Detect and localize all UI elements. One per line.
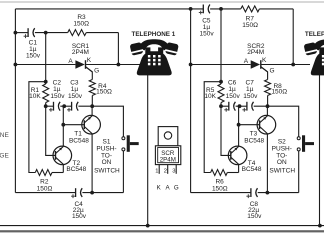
- label S2 text block: [269, 139, 295, 175]
- SCR package inner label box: [158, 148, 179, 163]
- svg-text:BC548: BC548: [69, 138, 89, 145]
- svg-text:2: 2: [164, 168, 167, 174]
- SCR package pin 2: [167, 165, 169, 174]
- node R1-branch junction: [44, 80, 48, 84]
- svg-text:SWITCH: SWITCH: [269, 168, 295, 175]
- wire T1 emitter to bottom: [91, 134, 93, 193]
- svg-text:1µ: 1µ: [228, 86, 236, 93]
- svg-text:BC548: BC548: [66, 166, 86, 173]
- label R6: [212, 179, 228, 193]
- svg-text:150v: 150v: [243, 93, 258, 100]
- frame bottom border bar: [0, 230, 324, 232]
- switch S1 push-to-on contacts: [122, 137, 125, 151]
- capacitor C8: [246, 188, 257, 198]
- wire left rail B vertical: [190, 9, 192, 193]
- svg-text:150v: 150v: [26, 52, 41, 59]
- label pin names K A G: [157, 184, 179, 191]
- switch S1 button: [127, 135, 139, 152]
- label C7: [243, 80, 258, 101]
- svg-text:1µ: 1µ: [246, 86, 254, 93]
- telephone icon telephone 1: [129, 39, 179, 75]
- wire between caps: [60, 105, 71, 107]
- node cathode junction: [117, 63, 121, 67]
- svg-text:GE: GE: [0, 153, 9, 160]
- svg-text:150v: 150v: [50, 93, 65, 100]
- capacitor C4: [71, 188, 82, 198]
- capacitor C5: [199, 5, 210, 15]
- resistor R7: [241, 6, 260, 12]
- wire T2 collector to T1 base: [62, 125, 64, 147]
- wire capacitor row: [46, 105, 54, 107]
- svg-text:1µ: 1µ: [53, 86, 61, 93]
- svg-text:150Ω: 150Ω: [96, 89, 112, 96]
- wire bottom row right part: [258, 192, 299, 194]
- wire C1 to R3: [35, 32, 68, 34]
- wire R8 to caps row: [267, 96, 269, 107]
- wire gate of SCR1: [86, 67, 93, 80]
- wire R4 to caps row: [91, 96, 93, 107]
- switch S2 button: [302, 135, 314, 152]
- wire branch to R6: [204, 82, 221, 173]
- capacitor C6: [224, 102, 235, 112]
- resistor R1: [43, 84, 49, 103]
- capacitor C1: [24, 28, 35, 38]
- resistor R6: [211, 170, 228, 176]
- label C8: [247, 201, 262, 220]
- SCR SCR2 2P4M symbol: [251, 60, 268, 72]
- capacitor C2: [49, 102, 60, 112]
- wire bottom row: [191, 192, 251, 194]
- switch S2 push-to-on contacts: [297, 137, 300, 151]
- transistor T4 BC548: [228, 146, 247, 165]
- resistor R3: [68, 30, 87, 36]
- label C5 value: [200, 18, 215, 38]
- wire C7 to switch corner: [254, 106, 299, 137]
- svg-text:R2: R2: [40, 179, 49, 186]
- svg-text:150v: 150v: [68, 93, 83, 100]
- label pin numbers 1 2 3: [155, 168, 175, 174]
- capacitor C3: [67, 102, 78, 112]
- label T4: [242, 160, 262, 173]
- node top rail at right rail: [189, 7, 193, 11]
- svg-text:G: G: [174, 184, 179, 191]
- svg-text:T3: T3: [250, 130, 258, 137]
- node telephone 2 line junction: [318, 224, 322, 228]
- label C6: [226, 80, 241, 101]
- label R5: [204, 87, 216, 100]
- SCR package pin 3: [175, 165, 177, 174]
- svg-text:3: 3: [172, 168, 175, 174]
- wire T4 collector to T3 base: [238, 125, 240, 147]
- node T3 emitter junction: [266, 191, 270, 195]
- wire R5 line upper: [220, 9, 222, 84]
- wire S2 to bottom rail: [298, 151, 300, 193]
- label C3: [68, 80, 83, 101]
- svg-text:K: K: [87, 57, 92, 64]
- node rail-anode junction: [189, 63, 193, 67]
- svg-text:150v: 150v: [200, 30, 215, 37]
- label R4: [96, 83, 112, 96]
- svg-text:A: A: [166, 184, 171, 191]
- wire gate of SCR2: [261, 67, 268, 80]
- node T3 base junction: [237, 123, 241, 127]
- wire anode row from rail to SCR1: [15, 64, 75, 66]
- node telephone 1 line junction: [146, 224, 150, 228]
- svg-text:2P4M: 2P4M: [160, 157, 176, 164]
- wire S1 to bottom rail: [122, 151, 124, 193]
- svg-text:2P4M: 2P4M: [72, 49, 89, 56]
- label R8: [271, 83, 287, 96]
- label C1 value: [26, 39, 41, 59]
- label R2: [37, 179, 53, 193]
- node R5-caps junction: [219, 104, 223, 108]
- transistor T1 BC548: [82, 115, 101, 134]
- resistor R5: [218, 84, 224, 103]
- wire caps-junction drop: [62, 106, 64, 125]
- svg-text:BC548: BC548: [244, 138, 264, 145]
- wire R5 to T4 base: [221, 103, 231, 156]
- svg-text:150Ω: 150Ω: [242, 22, 258, 29]
- svg-text:10K: 10K: [29, 93, 41, 100]
- wire caps-junction drop: [238, 106, 240, 125]
- wire T3 base: [239, 124, 260, 126]
- capacitor C7: [242, 102, 253, 112]
- node C1-R3 junction: [44, 31, 48, 35]
- wire bottom row right part: [82, 192, 123, 194]
- wire R1 line upper: [45, 33, 47, 84]
- wire telephone line lower rail: [0, 225, 324, 227]
- wire left rail A vertical: [14, 9, 16, 193]
- label T1: [69, 130, 89, 144]
- wire T1 collector: [91, 106, 93, 116]
- node R8-collector junction: [266, 104, 270, 108]
- wire R1 to T2 base: [46, 103, 56, 156]
- label C2: [50, 80, 65, 101]
- transistor T2 BC548: [53, 146, 72, 165]
- svg-text:A: A: [68, 58, 73, 65]
- wire between caps: [236, 105, 247, 107]
- node R1-caps junction: [44, 104, 48, 108]
- node caps midpoint junction: [62, 104, 66, 108]
- wire cathode-node vertical drop: [117, 33, 119, 65]
- svg-text:ON: ON: [102, 159, 112, 166]
- wire T1 base: [63, 124, 84, 126]
- label T2: [66, 160, 86, 173]
- label S1 text block: [94, 139, 120, 175]
- transistor T3 BC548: [257, 115, 276, 134]
- svg-text:150v: 150v: [247, 213, 262, 220]
- wire top rail horizontal: [15, 8, 203, 10]
- node R5-branch junction: [219, 80, 223, 84]
- svg-text:R6: R6: [215, 179, 224, 186]
- wire C5 to R7: [210, 8, 241, 10]
- node caps midpoint junction: [238, 104, 242, 108]
- resistor R4: [89, 80, 95, 96]
- wire R3 to cathode-node corner: [86, 32, 118, 34]
- node C5-R7 junction: [219, 7, 223, 11]
- wire capacitor row: [221, 105, 229, 107]
- node T1 emitter junction: [90, 191, 94, 195]
- svg-text:150Ω: 150Ω: [212, 186, 228, 193]
- wire T3 emitter to bottom: [266, 134, 268, 193]
- wire cathode to phone: [86, 64, 141, 66]
- svg-text:150v: 150v: [226, 93, 241, 100]
- label R7: [242, 16, 258, 30]
- node T1 base junction: [61, 123, 65, 127]
- label R3: [73, 14, 89, 27]
- resistor R2: [35, 170, 52, 176]
- wire branch to R2: [29, 82, 46, 173]
- svg-text:A: A: [244, 58, 249, 65]
- svg-text:K: K: [262, 57, 267, 64]
- wire C3 to switch corner: [78, 106, 123, 137]
- label SCR2: [247, 43, 265, 56]
- svg-text:K: K: [157, 184, 162, 191]
- svg-text:1µ: 1µ: [71, 86, 79, 93]
- label SCR package type: [160, 150, 176, 164]
- wire bottom row: [15, 192, 75, 194]
- wire R6 to T4 emitter: [227, 172, 238, 174]
- svg-text:G: G: [269, 68, 274, 75]
- wire telephone 2 to line rail: [319, 73, 321, 226]
- node rail-anode junction: [14, 63, 18, 67]
- telephone icon telephone 2: [303, 39, 324, 75]
- label R1: [29, 87, 41, 100]
- svg-text:TELEPHONE 1: TELEPHONE 1: [132, 31, 176, 38]
- svg-text:2P4M: 2P4M: [247, 49, 264, 56]
- SCR SCR1 2P4M symbol: [75, 60, 92, 72]
- SCR package body: [155, 146, 180, 165]
- resistor R8: [265, 80, 271, 96]
- svg-text:1: 1: [155, 168, 158, 174]
- wire telephone 1 to line rail: [147, 73, 149, 226]
- svg-text:10K: 10K: [204, 93, 216, 100]
- svg-text:ON: ON: [277, 159, 287, 166]
- wire T4 emitter: [238, 164, 240, 172]
- svg-text:150Ω: 150Ω: [37, 186, 53, 193]
- svg-text:NE: NE: [0, 132, 9, 139]
- SCR package mounting hole: [164, 132, 171, 139]
- wire T3 collector: [266, 106, 268, 116]
- node rail-C1 junction: [14, 31, 18, 35]
- node R4-collector junction: [90, 104, 94, 108]
- svg-text:G: G: [94, 68, 99, 75]
- svg-text:150Ω: 150Ω: [73, 20, 89, 27]
- label C4: [72, 201, 87, 220]
- wire cathode to phone: [261, 64, 310, 66]
- svg-text:TELEPHONE 2: TELEPHONE 2: [305, 31, 324, 38]
- wire R7 to corner: [259, 8, 293, 10]
- svg-text:SWITCH: SWITCH: [94, 168, 120, 175]
- svg-text:150Ω: 150Ω: [271, 89, 287, 96]
- wire T2 emitter: [62, 164, 64, 172]
- frame top border line: [0, 1, 324, 3]
- wire anode row from rail to SCR2: [191, 64, 251, 66]
- wire cathode-node vertical drop right: [292, 9, 294, 65]
- wire R2 to T2 emitter: [52, 172, 63, 174]
- wire C1 branch from rail: [15, 32, 28, 34]
- node cathode junction: [291, 63, 295, 67]
- svg-text:T1: T1: [74, 130, 82, 137]
- SCR package pin 1: [158, 165, 160, 174]
- svg-text:BC548: BC548: [242, 166, 262, 173]
- svg-text:150v: 150v: [72, 213, 87, 220]
- label SCR1: [72, 43, 90, 56]
- label T3: [244, 130, 264, 144]
- SCR 2P4M package tab: [158, 127, 178, 146]
